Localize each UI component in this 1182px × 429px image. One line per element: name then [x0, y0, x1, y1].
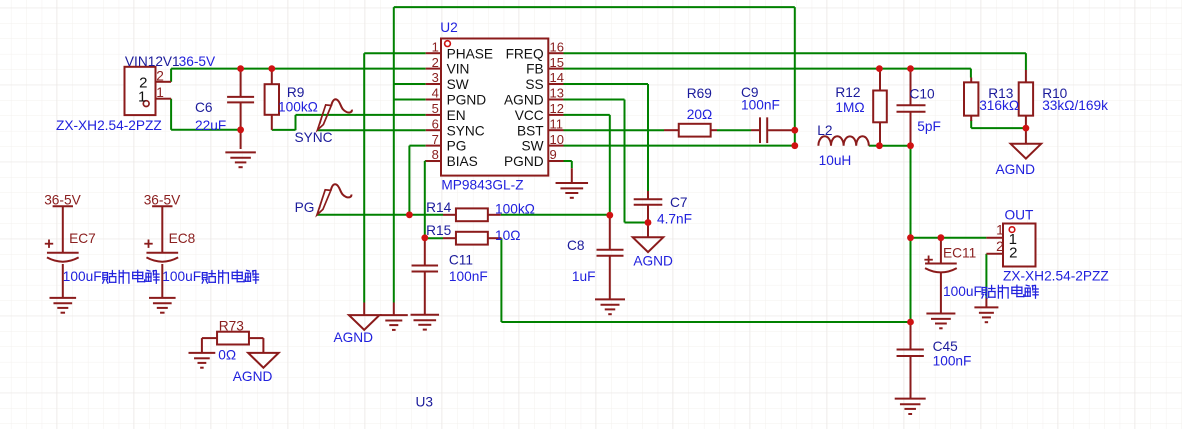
- svg-text:PG: PG: [447, 139, 467, 154]
- svg-text:AGND: AGND: [996, 162, 1036, 177]
- svg-text:EC7: EC7: [69, 231, 96, 246]
- svg-text:0Ω: 0Ω: [218, 348, 236, 363]
- svg-text:R15: R15: [426, 223, 451, 238]
- svg-text:10uH: 10uH: [819, 153, 852, 168]
- svg-text:16: 16: [550, 39, 564, 54]
- svg-text:22uF: 22uF: [195, 118, 226, 133]
- svg-text:R14: R14: [426, 200, 451, 215]
- svg-text:6: 6: [432, 116, 439, 131]
- svg-text:OUT: OUT: [1005, 208, 1035, 223]
- svg-text:AGND: AGND: [504, 93, 544, 108]
- svg-text:PGND: PGND: [447, 93, 487, 108]
- svg-text:100nF: 100nF: [741, 98, 780, 113]
- svg-text:4.7nF: 4.7nF: [657, 211, 692, 226]
- svg-text:SS: SS: [525, 77, 543, 92]
- svg-text:ZX-XH2.54-2PZZ: ZX-XH2.54-2PZZ: [1003, 269, 1109, 284]
- svg-text:2: 2: [156, 69, 164, 84]
- svg-text:2: 2: [1009, 244, 1017, 261]
- svg-text:1MΩ: 1MΩ: [835, 100, 864, 115]
- svg-text:MP9843GL-Z: MP9843GL-Z: [441, 178, 523, 193]
- svg-text:100kΩ: 100kΩ: [278, 99, 318, 114]
- svg-text:10: 10: [550, 132, 564, 147]
- svg-text:2: 2: [996, 239, 1004, 254]
- svg-text:C7: C7: [670, 195, 688, 210]
- svg-text:C10: C10: [910, 87, 935, 102]
- svg-text:ZX-XH2.54-2PZZ: ZX-XH2.54-2PZZ: [56, 118, 162, 133]
- svg-text:8: 8: [432, 147, 439, 162]
- svg-text:100nF: 100nF: [449, 269, 488, 284]
- svg-text:FREQ: FREQ: [506, 46, 544, 61]
- svg-text:AGND: AGND: [233, 369, 273, 384]
- svg-text:EN: EN: [447, 108, 466, 123]
- svg-text:5: 5: [432, 101, 439, 116]
- svg-text:14: 14: [550, 70, 564, 85]
- svg-text:316kΩ: 316kΩ: [979, 98, 1019, 113]
- svg-text:L2: L2: [817, 123, 832, 138]
- svg-text:U2: U2: [440, 20, 458, 35]
- svg-text:U3: U3: [416, 395, 434, 410]
- svg-text:100kΩ: 100kΩ: [495, 202, 535, 217]
- svg-text:10Ω: 10Ω: [495, 228, 520, 243]
- svg-text:1: 1: [156, 85, 164, 100]
- svg-text:36-5V: 36-5V: [144, 192, 181, 207]
- svg-text:R73: R73: [219, 319, 244, 334]
- svg-text:20Ω: 20Ω: [687, 107, 712, 122]
- svg-text:5pF: 5pF: [917, 119, 941, 134]
- svg-text:9: 9: [550, 147, 557, 162]
- svg-text:4: 4: [432, 86, 439, 101]
- svg-text:7: 7: [432, 132, 439, 147]
- svg-text:3: 3: [432, 70, 439, 85]
- svg-text:100uF: 100uF: [943, 284, 982, 299]
- svg-text:C45: C45: [933, 339, 958, 354]
- svg-text:R12: R12: [835, 85, 860, 100]
- svg-text:1: 1: [432, 39, 439, 54]
- svg-text:2: 2: [432, 55, 439, 70]
- svg-text:AGND: AGND: [334, 330, 374, 345]
- svg-text:EC8: EC8: [169, 231, 196, 246]
- svg-text:BIAS: BIAS: [447, 154, 478, 169]
- svg-text:100uF: 100uF: [162, 269, 201, 284]
- svg-text:VCC: VCC: [515, 108, 544, 123]
- svg-text:1uF: 1uF: [572, 269, 596, 284]
- svg-text:VIN: VIN: [447, 62, 470, 77]
- svg-text:R9: R9: [287, 85, 305, 100]
- svg-text:C6: C6: [195, 100, 213, 115]
- svg-text:FB: FB: [526, 62, 544, 77]
- svg-text:11: 11: [550, 116, 564, 131]
- svg-text:VIN12V1: VIN12V1: [125, 54, 180, 69]
- svg-text:SW: SW: [522, 139, 544, 154]
- svg-text:BST: BST: [517, 123, 544, 138]
- svg-text:100uF: 100uF: [63, 269, 102, 284]
- svg-text:PHASE: PHASE: [447, 46, 493, 61]
- svg-text:PG: PG: [295, 200, 315, 215]
- svg-text:SYNC: SYNC: [295, 130, 333, 145]
- svg-text:33kΩ/169k: 33kΩ/169k: [1042, 98, 1108, 113]
- svg-text:C8: C8: [567, 238, 585, 253]
- svg-text:AGND: AGND: [633, 253, 673, 268]
- svg-text:SYNC: SYNC: [447, 123, 485, 138]
- svg-text:SW: SW: [447, 77, 469, 92]
- svg-text:15: 15: [550, 55, 564, 70]
- svg-text:12: 12: [550, 101, 564, 116]
- svg-text:R69: R69: [687, 86, 712, 101]
- svg-text:1: 1: [996, 223, 1004, 238]
- svg-text:PGND: PGND: [504, 154, 544, 169]
- svg-text:36-5V: 36-5V: [179, 54, 216, 69]
- svg-text:13: 13: [550, 86, 564, 101]
- svg-text:100nF: 100nF: [933, 353, 972, 368]
- svg-text:1: 1: [138, 88, 146, 105]
- svg-text:C11: C11: [449, 252, 473, 267]
- svg-text:EC11: EC11: [943, 245, 976, 260]
- svg-text:36-5V: 36-5V: [44, 192, 81, 207]
